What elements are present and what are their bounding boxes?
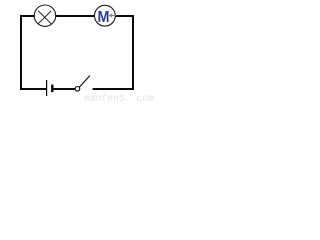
battery B1 short thick plate (negative) xyxy=(51,85,53,93)
switch S1 lever (open) xyxy=(79,76,90,88)
wire: bottom-right segment (corner to switch contact) xyxy=(93,88,134,90)
battery B1 long plate (positive) xyxy=(46,80,48,96)
wire: motor to top-right corner xyxy=(115,15,134,17)
switch S1 pivot circle xyxy=(75,87,80,92)
lamp L1 cross stroke 1 xyxy=(38,11,51,24)
motor U1 gray arrow head xyxy=(110,14,113,18)
wire: top-left segment (corner to lamp) xyxy=(20,15,35,17)
svg-text:manfen5. com: manfen5. com xyxy=(84,93,154,104)
wire: switch-left segment (battery to switch) xyxy=(53,88,75,90)
wire: right vertical xyxy=(132,15,134,90)
motor U1 gray arrow shaft xyxy=(110,15,116,17)
wire: left vertical xyxy=(20,15,22,90)
svg-text:M: M xyxy=(97,8,109,26)
lamp L1 cross stroke 2 xyxy=(38,11,51,24)
lamp L1 circle xyxy=(34,5,55,26)
background xyxy=(0,0,157,104)
wire: lamp to motor segment xyxy=(56,15,95,17)
wire: battery-left segment (corner to battery) xyxy=(20,88,47,90)
motor U1 circle xyxy=(95,5,116,26)
